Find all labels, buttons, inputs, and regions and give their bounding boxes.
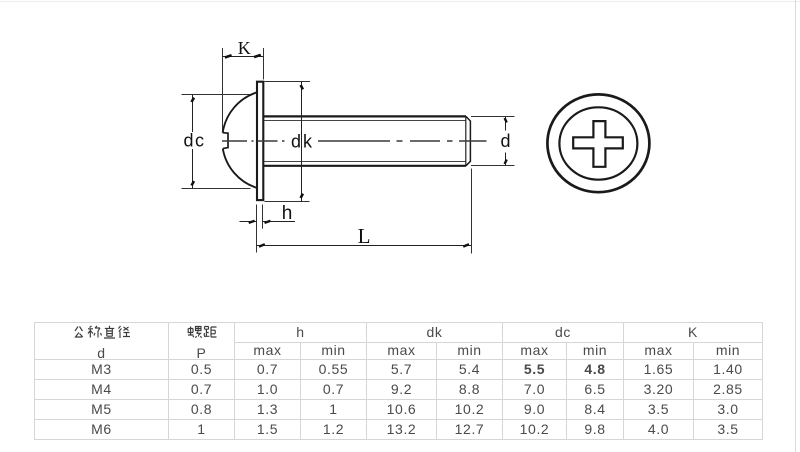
dimension d line (two segments, gap for text) (505, 117, 507, 131)
shaft end chamfer line (465, 117, 467, 165)
svg-text:K: K (238, 38, 251, 58)
dimension dc arrow down (192, 181, 195, 185)
dimension K extension line right (263, 48, 265, 80)
svg-text:d: d (500, 131, 510, 151)
dimension L arrow left (259, 244, 265, 246)
front view outer circle (547, 94, 649, 192)
svg-text:dc: dc (183, 131, 205, 151)
dimension h extension line left (256, 205, 258, 253)
shaft end face outline (466, 116, 471, 165)
dimension d extension line bottom (471, 165, 515, 167)
dimension data table (34, 322, 763, 440)
faint page border top (0, 1, 800, 2)
dimension d extension line top (471, 116, 515, 118)
dimension dc extension line top (182, 94, 253, 96)
chinese label luoju (thread pitch) (169, 323, 234, 342)
head flange (washer) (257, 82, 263, 200)
dimension K line (223, 56, 264, 58)
dimension d arrow down (505, 160, 507, 165)
dimension dk extension line top (265, 81, 311, 83)
faint page border right (795, 0, 796, 452)
screw head dome arc lower (223, 149, 257, 188)
screw head dome arc upper (223, 93, 257, 133)
screw shaft top edge (264, 115, 466, 117)
thread line bottom (264, 161, 466, 163)
dimension L extension line right (471, 169, 473, 254)
dimension K extension line left (222, 48, 224, 130)
center line (222, 140, 487, 142)
screw shaft bottom edge (264, 165, 466, 167)
dimension h arrow pointing right (249, 221, 255, 223)
dimension dk extension line bottom (265, 201, 310, 203)
dimension d arrow up (505, 118, 507, 123)
front view inner circle (559, 107, 637, 179)
svg-text:h: h (282, 203, 293, 224)
dimension L line (257, 245, 472, 247)
dimension h line tails (240, 221, 257, 223)
dimension dk line (two segments, gap for text) (301, 82, 303, 202)
thread line top (264, 120, 466, 122)
dimension L arrow right (463, 244, 469, 246)
screw technical drawing (0, 0, 800, 312)
dimension dk arrow up (301, 85, 303, 89)
dimension dc line (two segments, gap for text) (192, 95, 194, 133)
dimension dk arrow down (301, 194, 303, 198)
svg-text:L: L (358, 224, 371, 248)
svg-text:dk: dk (291, 132, 314, 152)
dimension dc arrow up (192, 98, 195, 102)
dimension dc extension line bottom (182, 188, 251, 190)
dimension K arrow left (225, 55, 232, 57)
dimension h arrow pointing left (265, 221, 271, 223)
dimension h extension line right (262, 205, 264, 229)
chinese label gongchengzhijing (nominal diameter) (35, 323, 168, 342)
phillips recess notch in dome silhouette (223, 133, 228, 149)
phillips cross recess (573, 121, 623, 167)
dimension K arrow right (254, 55, 261, 57)
